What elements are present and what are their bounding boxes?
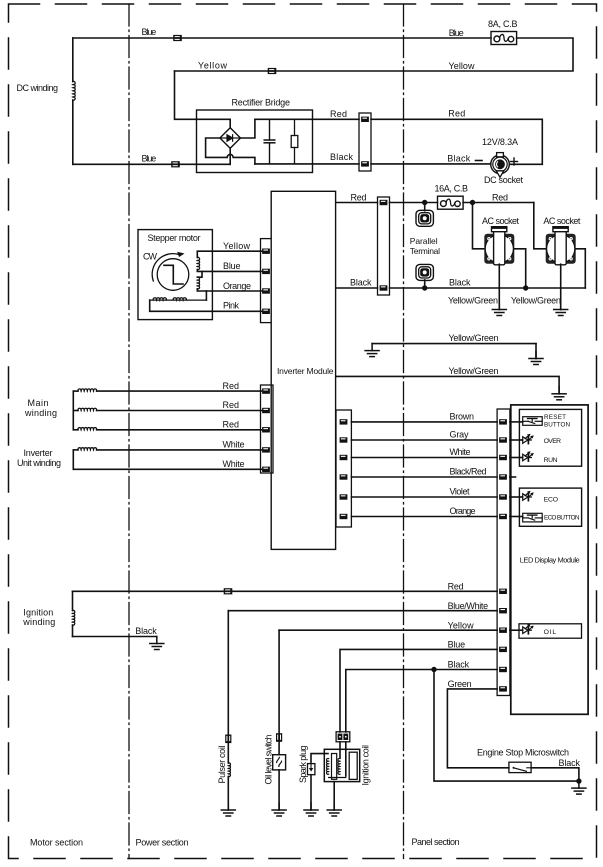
ground oil level switch (272, 803, 286, 816)
stepper winding B coil (197, 277, 199, 289)
node junction red/AC socket 1 (470, 200, 475, 205)
svg-text:Blue: Blue (142, 154, 157, 164)
stepper motor CW arrow arc (152, 252, 184, 281)
wire Yellow/Green bonding 2 (inverter to panel) (336, 376, 559, 393)
svg-text:Gray: Gray (450, 430, 470, 440)
svg-text:Inverter: Inverter (24, 448, 53, 458)
wire Black to DC socket (371, 163, 491, 165)
connector pin on Blue top wire (173, 35, 182, 41)
svg-text:Black: Black (449, 278, 471, 288)
svg-text:Inverter Module: Inverter Module (277, 366, 334, 376)
engine stop microswitch S2 (509, 762, 531, 772)
svg-text:Engine Stop Microswitch: Engine Stop Microswitch (477, 748, 569, 758)
svg-text:DC socket: DC socket (484, 175, 523, 185)
svg-text:CW: CW (143, 252, 158, 262)
connector pin on Blue bottom wire (171, 161, 180, 167)
svg-text:Black: Black (447, 154, 471, 164)
ground AC socket 2 (554, 303, 568, 316)
ground spark plug (304, 803, 318, 816)
svg-text:Stepper motor: Stepper motor (148, 233, 201, 243)
divider power/panel section (dash-dot) (403, 4, 405, 859)
svg-text:Blue: Blue (223, 261, 241, 271)
connector pin on Yellow wire (268, 68, 277, 74)
ground bonding 2 (552, 387, 566, 400)
AC socket 2 (546, 227, 576, 265)
svg-text:Yellow: Yellow (449, 61, 476, 71)
svg-text:Black/Red: Black/Red (450, 467, 487, 477)
svg-text:12V/8.3A: 12V/8.3A (482, 137, 518, 147)
stepper winding C coil (horizontal) (150, 298, 207, 300)
svg-text:Brown: Brown (450, 412, 475, 422)
connector CN1 (bridge output) (359, 113, 371, 171)
svg-text:Yellow/Green: Yellow/Green (449, 333, 499, 343)
spark plug SP1 (308, 764, 315, 775)
svg-text:Blue: Blue (142, 27, 157, 37)
svg-text:Panel section: Panel section (412, 837, 460, 847)
svg-text:Black: Black (448, 660, 470, 670)
AC socket 1 (484, 227, 514, 265)
stepper motor box (138, 230, 212, 320)
resistor R1 (291, 119, 298, 164)
wire Red after breaker (463, 202, 534, 204)
svg-text:White: White (223, 440, 245, 450)
wire main winding Red 3 (97, 429, 262, 431)
svg-text:White: White (223, 459, 245, 469)
wire Blue bottom (DC winding to bridge) (73, 163, 230, 165)
svg-text:Red: Red (223, 400, 240, 410)
svg-text:BUTTON: BUTTON (544, 422, 570, 429)
wire Red inverter AC output (inverter to connector CN2) (336, 202, 378, 204)
svg-text:Red: Red (448, 109, 465, 119)
wire yellow into OIL led (510, 629, 523, 631)
wire white into RUN led (510, 457, 523, 459)
label plus (511, 158, 518, 165)
svg-text:Blue: Blue (448, 640, 466, 650)
stepper motor rotor circle (157, 259, 189, 291)
svg-text:Orange: Orange (223, 281, 251, 291)
svg-text:Yellow: Yellow (223, 241, 251, 251)
svg-text:Pulser coil: Pulser coil (217, 746, 227, 784)
svg-text:Pink: Pink (223, 301, 240, 311)
rectifier bridge box (197, 110, 313, 173)
svg-text:Ignition: Ignition (23, 608, 53, 618)
capacitor C1 (264, 119, 275, 164)
wire ignition coil to ground (333, 782, 335, 810)
svg-text:Yellow: Yellow (448, 620, 475, 630)
ECO button icon (523, 513, 543, 522)
ground pulser coil (221, 803, 235, 816)
svg-text:Oil level switch: Oil level switch (264, 735, 274, 785)
wire Blue (to ignition coil) (340, 649, 497, 732)
svg-text:Unit winding: Unit winding (17, 458, 61, 468)
wire Red rail (bridge to connector) (255, 118, 359, 120)
wire Blue top (DC winding to 8A C.B) (73, 37, 491, 39)
reset button icon (523, 417, 543, 426)
connector pin on ignition red wire (224, 588, 233, 594)
node junction stop switch ground (576, 778, 581, 783)
svg-text:Spark plug: Spark plug (298, 746, 308, 784)
svg-text:Red: Red (223, 381, 240, 391)
wire Black inverter AC output (inverter to connector CN2) (336, 287, 378, 289)
wire parallel terminal lower to black bus (424, 280, 426, 288)
svg-text:Blue: Blue (449, 28, 464, 38)
parallel terminal upper (416, 210, 433, 226)
wire Red to DC socket (371, 119, 542, 164)
ground AC socket 1 (492, 303, 506, 316)
label RESET BUTTON (544, 414, 570, 429)
svg-text:16A, C.B: 16A, C.B (435, 184, 469, 194)
DC socket J1 (491, 153, 510, 178)
svg-text:Red: Red (448, 581, 464, 591)
svg-text:ECO BUTTON: ECO BUTTON (544, 515, 580, 522)
wire inverter unit winding White 1 (97, 449, 262, 451)
connector CN4 (windings) (261, 385, 274, 473)
svg-text:Red: Red (351, 193, 367, 203)
wire orange into ECO button (510, 516, 523, 518)
wire Blue/White (pulser to LED module) (228, 610, 497, 612)
wire stepper Orange (197, 289, 261, 291)
wire stepper Yellow (197, 251, 261, 257)
svg-text:OIL: OIL (544, 629, 557, 636)
node junction black/AC socket 1 (523, 285, 528, 290)
svg-text:Main: Main (28, 398, 49, 408)
svg-text:Terminal: Terminal (410, 246, 440, 256)
inverter module box (271, 191, 335, 549)
wire AC socket 2 earth (560, 264, 562, 309)
wire Black (to ignition coil) (346, 670, 497, 733)
wire Red bus to 16A breaker (390, 202, 438, 204)
wire stepper Pink (150, 300, 262, 311)
label Ignition winding (22, 608, 55, 628)
wire bridge DC+ (right vertex up to red rail) (241, 119, 255, 138)
wire red to parallel terminal upper (424, 203, 426, 211)
LED OVER (520, 434, 534, 444)
svg-text:Rectifier Bridge: Rectifier Bridge (232, 98, 291, 108)
DC winding L1 (73, 38, 75, 164)
svg-text:Yellow/Green: Yellow/Green (511, 296, 561, 306)
svg-text:winding: winding (24, 408, 57, 418)
svg-text:RUN: RUN (544, 457, 558, 464)
circuit breaker 8A C.B (491, 32, 517, 45)
wire AC socket 1 right to black bus (514, 249, 525, 288)
svg-text:ECO: ECO (544, 497, 559, 504)
wire red drop to AC socket 2 (534, 203, 546, 249)
wire inverter unit winding White 2 (73, 468, 261, 470)
wire AC socket 2 right to black bus (576, 249, 586, 288)
connector CN5 (inverter signal out) (336, 410, 351, 527)
svg-text:Yellow: Yellow (198, 61, 228, 71)
node junction black/parallel terminal (422, 285, 427, 290)
svg-text:8A, C.B: 8A, C.B (488, 19, 518, 29)
svg-text:LED Display Module: LED Display Module (520, 556, 580, 565)
connector CN6 (LED module) (497, 409, 510, 696)
diode symbol inside bridge (221, 135, 241, 141)
wire stepper Blue (tap) (197, 270, 261, 272)
wire Brown (351, 421, 497, 423)
LED ECO (520, 491, 534, 501)
svg-text:Yellow/Green: Yellow/Green (449, 366, 499, 376)
wire Violet (351, 496, 497, 498)
wire from 8A breaker down to Yellow (175, 38, 574, 71)
wire Yellow drop into rectifier bridge (175, 71, 231, 128)
svg-text:Power section: Power section (136, 838, 189, 848)
stepper winding A coil (197, 257, 199, 269)
ground engine stop (572, 781, 586, 794)
connector CN3 (stepper) (261, 239, 274, 323)
wire Yellow/Green bonding 1 (372, 343, 536, 345)
LED module inner box 1 (519, 409, 581, 466)
wire black/red stub (510, 476, 516, 478)
ground bonding 1 right (529, 352, 543, 365)
oil level switch S1 (273, 630, 286, 810)
wire violet into ECO led (510, 496, 523, 498)
wire Red (ignition winding to LED module) (73, 590, 498, 592)
main winding coils (73, 389, 96, 430)
wire Gray (351, 439, 497, 441)
wire Black/Red (351, 476, 497, 478)
svg-text:Red: Red (223, 420, 240, 430)
svg-text:AC socket: AC socket (482, 216, 519, 226)
ignition coil T1 (324, 749, 359, 781)
wire bonding 1 right drop (535, 344, 537, 359)
svg-text:Ignition coil: Ignition coil (360, 745, 370, 786)
svg-text:Yellow/Green: Yellow/Green (448, 296, 498, 306)
node junction red/parallel terminal (422, 200, 427, 205)
svg-text:Black: Black (559, 758, 581, 768)
wire spark plug lead (311, 754, 328, 764)
divider motor/power section (dash-dot) (128, 4, 130, 859)
ignition coil connector block (336, 732, 350, 742)
svg-text:Motor section: Motor section (30, 838, 83, 848)
wire Black rail (bridge to connector) (255, 163, 359, 165)
pulser coil P1 (225, 611, 231, 810)
diode bridge diamond (220, 128, 241, 149)
label minus (476, 160, 483, 162)
wire bridge AC bottom (blue to bottom vertex) (229, 148, 231, 164)
svg-text:OVER: OVER (544, 438, 562, 445)
ground bonding 1 left (365, 344, 379, 357)
wire brown into reset button (510, 421, 523, 423)
svg-text:AC socket: AC socket (543, 216, 580, 226)
svg-text:Violet: Violet (450, 487, 470, 497)
wire red drop to AC socket 1 (473, 203, 485, 249)
svg-text:DC winding: DC winding (17, 83, 59, 93)
label Parallel Terminal (410, 236, 440, 256)
inverter unit winding coil (73, 448, 96, 470)
wire White (signal) (351, 457, 497, 459)
wire stop switch to ground (531, 768, 579, 781)
LED OIL (520, 624, 534, 634)
ground ignition coil (327, 803, 341, 816)
svg-text:RESET: RESET (544, 414, 566, 421)
circuit breaker 16A C.B (438, 196, 464, 209)
stepper motor step waveform glyph (164, 265, 183, 284)
label Main winding (24, 398, 57, 418)
svg-text:Orange: Orange (450, 506, 476, 516)
wire ignition winding to ground (73, 636, 157, 638)
svg-text:Parallel: Parallel (410, 236, 438, 246)
svg-text:winding: winding (22, 617, 55, 627)
node junction black/stop switch (431, 667, 436, 672)
wire black drop to stop switch ground rail (434, 670, 579, 782)
svg-text:Green: Green (448, 679, 472, 689)
wire blue/black into ignition coil (340, 742, 346, 776)
wire AC socket 1 earth (498, 264, 500, 309)
wire stepper winding C right end to Orange (205, 291, 207, 300)
wire gray into OVER led (510, 439, 523, 441)
label Inverter Unit winding (17, 448, 61, 468)
wire Yellow (oil switch to LED module) (279, 629, 497, 631)
wire bridge DC- loop (left vertex to black rail) with hop over AC (206, 138, 255, 164)
LED RUN (520, 451, 534, 461)
wire Green (to stop switch) (447, 689, 509, 768)
wire spark plug to ground (310, 775, 312, 810)
wire Orange (signal) (351, 516, 497, 518)
svg-text:Black: Black (330, 152, 354, 162)
ignition winding L2 (73, 591, 75, 636)
parallel terminal lower (416, 264, 433, 280)
LED module inner box 2 (519, 488, 581, 526)
wire stepper tap to winding B (197, 271, 202, 277)
svg-text:Red: Red (330, 109, 347, 119)
wire main winding Red 2 (97, 410, 262, 412)
ground ignition winding (150, 637, 164, 650)
svg-text:Blue/White: Blue/White (448, 601, 489, 611)
OIL indicator box (519, 624, 582, 638)
svg-text:White: White (450, 447, 471, 457)
svg-text:Black: Black (135, 626, 157, 636)
svg-text:Red: Red (492, 193, 508, 203)
wire main winding Red 1 (97, 390, 262, 392)
LED display module box (511, 405, 588, 714)
connector CN2 (AC output) (378, 197, 390, 295)
svg-text:Black: Black (350, 278, 372, 288)
wire Black bus (390, 287, 586, 289)
